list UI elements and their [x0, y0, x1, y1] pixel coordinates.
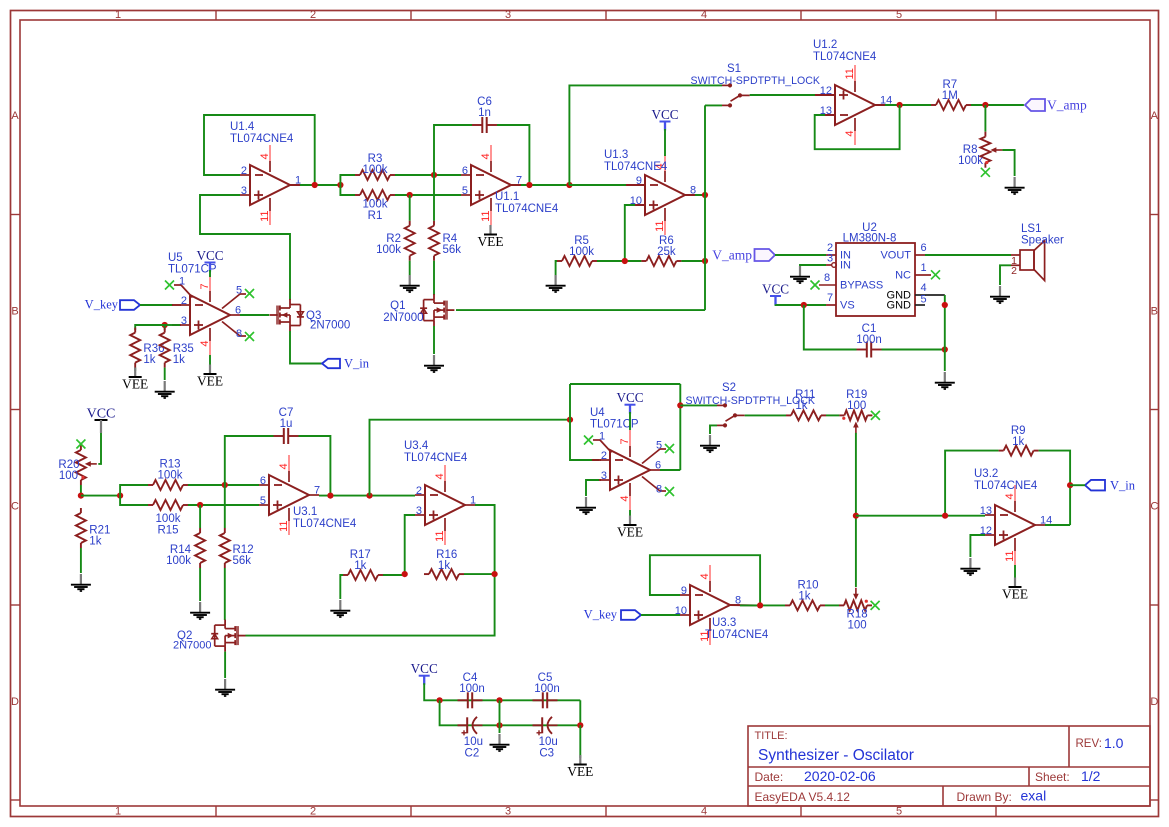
- node R20/R21 junction: [78, 493, 84, 499]
- svg-text:TL074CNE4: TL074CNE4: [974, 480, 1038, 492]
- svg-text:C2: C2: [465, 748, 480, 760]
- wire U4 pin3 to ground: [586, 480, 599, 496]
- svg-text:2: 2: [241, 165, 247, 177]
- svg-text:8: 8: [824, 272, 830, 284]
- svg-text:V_in: V_in: [1110, 478, 1136, 492]
- wire R7 to V_amp: [971, 104, 1024, 106]
- wire to R1: [340, 185, 355, 195]
- op-amp U4 TL071CP: [590, 407, 661, 510]
- svg-text:SWITCH-SPDTPTH_LOCK: SWITCH-SPDTPTH_LOCK: [691, 75, 821, 87]
- svg-text:3: 3: [416, 505, 422, 517]
- node U1.2 output junction: [897, 102, 903, 108]
- wire U1.3 pin10: [625, 205, 635, 261]
- svg-text:1n: 1n: [478, 107, 491, 119]
- svg-text:1: 1: [115, 9, 121, 21]
- svg-text:1k: 1k: [89, 536, 101, 548]
- ground at U4 pin3: [576, 497, 596, 514]
- svg-text:U3.3: U3.3: [712, 617, 736, 629]
- VEE below U1.1: [477, 225, 503, 249]
- VEE below U5: [197, 365, 223, 389]
- svg-text:4: 4: [699, 573, 711, 579]
- no-connect U2 pin1: [931, 270, 940, 279]
- net flag V_in at U3.2: [1085, 478, 1136, 492]
- capacitor C7: [274, 407, 299, 444]
- wire U3.1 output: [319, 495, 415, 497]
- net flag V_key: [85, 298, 140, 312]
- svg-text:10u: 10u: [464, 736, 483, 748]
- svg-text:1: 1: [599, 430, 605, 442]
- no-connect U4 pin8: [642, 477, 674, 497]
- capacitor C3 polarized: [533, 717, 558, 760]
- wire decoupling bottom row: [458, 724, 581, 726]
- VEE below U4: [617, 516, 643, 540]
- svg-text:4: 4: [480, 153, 492, 159]
- power VCC decoupling: [411, 661, 440, 700]
- ground at U2 pin3: [790, 266, 810, 283]
- transistor Q1 2N7000: [383, 294, 454, 326]
- resistor R17: [343, 549, 383, 580]
- wire decoupling right: [579, 700, 581, 725]
- transistor Q2 2N7000: [173, 620, 246, 652]
- node R6/U1.3-out junction: [702, 258, 708, 264]
- svg-text:1: 1: [115, 806, 121, 818]
- svg-text:TL074CNE4: TL074CNE4: [813, 51, 877, 63]
- op-amp U3.1: [259, 455, 357, 535]
- svg-text:1k: 1k: [143, 354, 155, 366]
- wire S2 throw1: [680, 404, 717, 406]
- svg-text:6: 6: [260, 475, 266, 487]
- resistor R6: [641, 235, 681, 266]
- svg-text:7: 7: [827, 292, 833, 304]
- wire split to R13: [120, 485, 148, 496]
- svg-text:4: 4: [259, 153, 271, 159]
- wire VCC to U2 pin7: [804, 304, 826, 306]
- wire V_key to U5 pin2: [140, 304, 173, 306]
- svg-text:VCC: VCC: [196, 248, 223, 263]
- svg-text:LM380N-8: LM380N-8: [843, 233, 897, 245]
- resistor R7: [931, 79, 971, 110]
- svg-text:1.0: 1.0: [1104, 735, 1124, 751]
- potentiometer R8: [958, 132, 1002, 168]
- no-connect U4 pin1: [584, 430, 612, 452]
- svg-text:U3.2: U3.2: [974, 468, 998, 480]
- power VCC above R20: [87, 407, 116, 464]
- wire Q1 gate: [456, 309, 705, 311]
- capacitor C4: [458, 672, 485, 708]
- wire split to R15: [120, 496, 148, 505]
- svg-text:TL074CNE4: TL074CNE4: [404, 452, 468, 464]
- wire R17 left to ground: [340, 575, 343, 599]
- op-amp U3.4: [404, 440, 476, 545]
- wire GND vertical: [944, 295, 946, 371]
- svg-text:A: A: [1151, 110, 1159, 122]
- wire R10 to R18: [825, 604, 839, 606]
- svg-text:4: 4: [701, 9, 707, 21]
- wire R6 right: [681, 260, 705, 262]
- wire V_key to U3.3 pin10: [641, 614, 680, 616]
- node R4 top junction: [431, 172, 437, 178]
- wire U4 feedback top: [570, 383, 680, 385]
- ground below R21: [71, 574, 91, 591]
- wire U5 pin4 to VEE: [209, 355, 211, 368]
- ground below R17: [330, 600, 350, 617]
- svg-text:V_in: V_in: [344, 357, 370, 371]
- node U4 input junction: [567, 417, 573, 423]
- resistor R10: [785, 580, 825, 611]
- wire U4 pin4 to VEE: [629, 510, 631, 519]
- node R2 top junction: [407, 192, 413, 198]
- svg-text:EasyEDA V5.4.12: EasyEDA V5.4.12: [755, 790, 851, 804]
- wire U2 VOUT to LS1: [925, 254, 1011, 256]
- svg-text:13: 13: [980, 505, 992, 517]
- wire U1.1 out to S1 throw1: [569, 85, 722, 185]
- svg-text:Synthesizer - Oscilator: Synthesizer - Oscilator: [758, 747, 914, 764]
- ground below R8 wiper: [1005, 177, 1025, 194]
- svg-text:U1.2: U1.2: [813, 39, 837, 51]
- node R13/R15 split junction: [117, 493, 123, 499]
- svg-text:25k: 25k: [657, 246, 676, 258]
- wire U1.1 pin11 to VEE: [490, 225, 492, 229]
- wire S2 pole to R11: [745, 414, 786, 416]
- svg-text:exal: exal: [1021, 788, 1047, 804]
- power VCC above U1.3: [651, 107, 678, 156]
- ground below R35: [155, 381, 175, 398]
- net flag V_key at U3.3: [584, 608, 641, 622]
- svg-text:11: 11: [278, 521, 290, 532]
- svg-text:100n: 100n: [534, 683, 560, 695]
- wire U3.2 output: [1045, 524, 1070, 526]
- svg-text:U4: U4: [590, 407, 605, 419]
- node R9 tee junction: [942, 513, 948, 519]
- wire R4 to Q1 drain: [433, 261, 435, 295]
- svg-text:C: C: [1150, 501, 1158, 513]
- ground below R2: [400, 275, 420, 292]
- svg-text:U3.1: U3.1: [293, 506, 317, 518]
- svg-text:2020-02-06: 2020-02-06: [804, 768, 876, 784]
- svg-text:U1.3: U1.3: [604, 149, 628, 161]
- wire S1 pole to U1.2 pin12: [750, 94, 825, 96]
- node C7/U3.1-out junction: [327, 493, 333, 499]
- svg-text:1k: 1k: [798, 591, 810, 603]
- node U3.2 pin13 tee junction: [853, 513, 859, 519]
- wire pin3 to R36/R35: [135, 325, 165, 330]
- svg-text:100k: 100k: [363, 164, 388, 176]
- svg-text:R1: R1: [368, 210, 383, 222]
- svg-text:VEE: VEE: [122, 377, 148, 392]
- wire R5 left to ground: [556, 261, 557, 275]
- wire Q1 source to ground: [433, 326, 435, 354]
- resistor R35: [160, 328, 194, 368]
- svg-text:4: 4: [619, 496, 631, 502]
- wire U3.2 pin11 to VEE: [1014, 565, 1016, 581]
- svg-text:10: 10: [675, 605, 687, 617]
- svg-text:56k: 56k: [233, 555, 252, 567]
- svg-text:D: D: [1150, 696, 1158, 708]
- svg-text:2N7000: 2N7000: [310, 320, 350, 332]
- svg-text:5: 5: [896, 806, 902, 818]
- svg-text:11: 11: [1004, 551, 1016, 562]
- svg-text:1: 1: [920, 262, 926, 274]
- wire U1.2 output: [885, 104, 931, 106]
- svg-text:100k: 100k: [958, 155, 983, 167]
- wire U3.4 output down: [245, 505, 494, 636]
- svg-text:V_amp: V_amp: [712, 248, 752, 263]
- wire R4 top: [433, 175, 435, 221]
- wire R8 wiper to ground: [1002, 150, 1014, 176]
- resistor R14: [166, 528, 205, 568]
- resistor R36: [130, 328, 164, 368]
- svg-text:5: 5: [656, 439, 662, 451]
- wire U1.3 output: [695, 194, 705, 196]
- svg-text:V_key: V_key: [85, 298, 119, 312]
- wire R2 top: [409, 195, 411, 221]
- VEE below U3.2: [1002, 578, 1028, 602]
- node C4 left junction: [437, 697, 443, 703]
- wire R21 bottom: [80, 548, 82, 573]
- svg-text:2: 2: [310, 9, 316, 21]
- capacitor C5: [533, 672, 560, 708]
- svg-text:4: 4: [701, 806, 707, 818]
- svg-text:1/2: 1/2: [1081, 768, 1101, 784]
- svg-text:VEE: VEE: [617, 525, 643, 540]
- no-connect R20 top: [76, 440, 85, 449]
- resistor R4: [429, 221, 461, 261]
- capacitor C2 polarized: [458, 717, 483, 760]
- node R3/R1 split junction: [337, 182, 343, 188]
- svg-text:U1.4: U1.4: [230, 121, 255, 133]
- svg-text:TITLE:: TITLE:: [755, 730, 788, 742]
- svg-text:D: D: [11, 696, 19, 708]
- wire R14 bottom: [199, 568, 201, 601]
- svg-text:100n: 100n: [459, 683, 485, 695]
- svg-text:2: 2: [310, 806, 316, 818]
- svg-text:1u: 1u: [280, 418, 293, 430]
- svg-text:NC: NC: [895, 270, 911, 282]
- net flag V_amp input: [712, 248, 775, 263]
- svg-text:11: 11: [259, 211, 271, 222]
- switch S1 SWITCH-SPDTPTH_LOCK: [691, 63, 821, 108]
- svg-text:TL071CP: TL071CP: [590, 419, 639, 431]
- wire wiper to U3.2 pin13: [856, 515, 985, 517]
- svg-text:8: 8: [656, 484, 662, 496]
- svg-text:VCC: VCC: [762, 282, 789, 297]
- svg-text:IN: IN: [840, 260, 851, 272]
- node V_in tee junction: [1067, 482, 1073, 488]
- node C1/GND junction: [942, 346, 948, 352]
- svg-text:56k: 56k: [443, 244, 462, 256]
- resistor R5: [557, 235, 597, 266]
- ground below R5: [546, 275, 566, 292]
- svg-text:3: 3: [601, 470, 607, 482]
- svg-text:V_key: V_key: [584, 608, 618, 622]
- node S1 branch junction: [566, 182, 572, 188]
- svg-text:VOUT: VOUT: [880, 250, 911, 262]
- svg-text:4: 4: [920, 282, 926, 294]
- wire U1.4 feedback: [204, 115, 315, 185]
- potentiometer R18: [839, 588, 872, 632]
- no-connect R18 right: [871, 601, 880, 610]
- power VCC at U2 pin7: [762, 282, 804, 306]
- wire U1.1 output: [521, 184, 569, 186]
- node U4-branch junction: [366, 493, 372, 499]
- svg-text:BYPASS: BYPASS: [840, 280, 883, 292]
- svg-text:100n: 100n: [856, 334, 882, 346]
- svg-text:TL074CNE4: TL074CNE4: [705, 629, 769, 641]
- wire U2 pin3 to ground: [800, 265, 826, 266]
- node R5/R6 junction: [622, 258, 628, 264]
- svg-text:6: 6: [655, 460, 661, 472]
- wire U5 pin3: [165, 324, 180, 326]
- svg-text:8: 8: [236, 328, 242, 340]
- svg-text:Sheet:: Sheet:: [1035, 770, 1070, 784]
- VEE below C3: [567, 755, 593, 779]
- svg-text:1k: 1k: [173, 354, 185, 366]
- net flag V_amp output: [1025, 98, 1087, 113]
- wire U1.4 output: [300, 184, 340, 186]
- svg-text:3: 3: [241, 185, 247, 197]
- node C4/C5 mid junction: [496, 697, 502, 703]
- op-amp U1.2: [813, 39, 900, 145]
- svg-text:3: 3: [181, 315, 187, 327]
- wire U5 out to Q3 gate: [240, 314, 269, 316]
- wire R16 right: [464, 573, 495, 575]
- wire R36 bottom: [134, 368, 136, 371]
- wire Q2 source to ground: [224, 652, 226, 678]
- svg-text:4: 4: [199, 341, 211, 347]
- wire U1.3 out vertical to S1 and Q1 gate: [704, 105, 706, 310]
- svg-text:10u: 10u: [539, 736, 558, 748]
- node R16/U3.4 junction: [492, 571, 498, 577]
- ground below Q2: [215, 679, 235, 696]
- svg-text:TL074CNE4: TL074CNE4: [293, 518, 357, 530]
- svg-text:3: 3: [505, 9, 511, 21]
- op-amp U3.3: [675, 565, 769, 645]
- svg-text:11: 11: [844, 68, 856, 79]
- wire U1.4 pin3 to Q3 drain: [200, 195, 290, 300]
- wire U3.1 out up to U4: [370, 420, 571, 496]
- svg-text:1M: 1M: [942, 90, 958, 102]
- svg-text:4: 4: [278, 463, 290, 469]
- no-connect U2 pin8: [811, 281, 837, 290]
- svg-text:1: 1: [179, 275, 185, 287]
- svg-text:100: 100: [848, 620, 867, 632]
- net flag V_in near Q3: [322, 357, 370, 371]
- title block: [748, 726, 1150, 806]
- svg-text:U1.1: U1.1: [495, 191, 519, 203]
- svg-text:TL074CNE4: TL074CNE4: [495, 203, 559, 215]
- node R7/R8 junction: [982, 102, 988, 108]
- wire R19 wiper down: [855, 433, 857, 587]
- wire R12 to Q2 drain: [224, 568, 226, 620]
- wire C7 left: [225, 436, 274, 485]
- no-connect U4 pin5: [642, 439, 674, 463]
- svg-text:4: 4: [1004, 493, 1016, 499]
- wire R9 feedback left: [945, 451, 999, 516]
- svg-text:2: 2: [181, 295, 187, 307]
- node R17/R16 junction: [402, 571, 408, 577]
- power VCC above U4: [616, 390, 643, 430]
- svg-text:2: 2: [416, 485, 422, 497]
- svg-text:VEE: VEE: [567, 764, 593, 779]
- wire R11 to R19: [826, 414, 839, 416]
- wire U2 pin4 jog: [925, 294, 945, 296]
- potentiometer R19: [839, 389, 872, 434]
- svg-text:GND: GND: [887, 300, 912, 312]
- transistor Q3 2N7000: [270, 299, 351, 332]
- svg-text:VS: VS: [840, 300, 855, 312]
- svg-text:1k: 1k: [795, 400, 807, 412]
- svg-text:100k: 100k: [158, 470, 183, 482]
- svg-text:5: 5: [236, 284, 242, 296]
- svg-text:Drawn By:: Drawn By:: [957, 790, 1012, 804]
- wire to R3: [340, 175, 355, 185]
- resistor R16: [424, 549, 464, 579]
- ground below Q1: [424, 355, 444, 372]
- svg-text:2N7000: 2N7000: [173, 640, 212, 652]
- wire C6 right: [497, 125, 529, 185]
- wire V_in tap: [1070, 484, 1085, 486]
- no-connect U5 pin1: [165, 275, 193, 297]
- op-amp U1.4: [230, 121, 312, 225]
- resistor R3: [355, 153, 395, 180]
- svg-text:VCC: VCC: [651, 107, 678, 122]
- svg-text:REV:: REV:: [1076, 738, 1102, 750]
- svg-text:4: 4: [434, 473, 446, 479]
- svg-text:C: C: [11, 501, 19, 513]
- wire C7 right: [299, 436, 331, 496]
- wire R1 to U1.1 pin5: [395, 194, 461, 196]
- wire R9 right: [1039, 451, 1071, 525]
- svg-text:5: 5: [260, 495, 266, 507]
- svg-text:4: 4: [844, 131, 856, 137]
- svg-text:6: 6: [462, 165, 468, 177]
- svg-text:VEE: VEE: [197, 374, 223, 389]
- svg-text:VEE: VEE: [1002, 587, 1028, 602]
- svg-text:2: 2: [1011, 265, 1017, 277]
- wire U3.3 output: [740, 604, 785, 606]
- resistor R13: [148, 459, 188, 491]
- no-connect R8 bottom: [981, 168, 990, 177]
- svg-text:100: 100: [59, 470, 78, 482]
- resistor R21: [76, 508, 111, 548]
- svg-text:VCC: VCC: [616, 390, 643, 405]
- svg-text:VEE: VEE: [477, 234, 503, 249]
- wire decoupling left branch: [440, 700, 458, 725]
- wire R13 right: [188, 484, 259, 486]
- no-connect U5 pin5: [222, 284, 254, 308]
- svg-text:100k: 100k: [569, 246, 594, 258]
- wire R2 bottom: [409, 261, 411, 275]
- wire R5 right: [597, 260, 641, 262]
- svg-text:A: A: [11, 110, 19, 122]
- wire LS1 pin2 to ground: [1000, 265, 1011, 285]
- IC U2 LM380N-8: [824, 222, 931, 316]
- wire R14 top: [199, 505, 201, 528]
- wire R20 to R13/R15 split: [81, 495, 120, 497]
- ground below S2: [700, 435, 720, 452]
- svg-text:100k: 100k: [376, 244, 401, 256]
- svg-text:100k: 100k: [166, 555, 191, 567]
- wire R17 right: [383, 574, 405, 576]
- svg-text:TL074CNE4: TL074CNE4: [230, 133, 294, 145]
- op-amp U1.1: [461, 145, 559, 225]
- svg-text:3: 3: [827, 253, 833, 265]
- wire U3.3 feedback: [650, 555, 760, 605]
- capacitor C1: [856, 323, 882, 358]
- op-amp U1.3: [604, 149, 705, 235]
- svg-text:7: 7: [619, 438, 631, 444]
- node S2 branch junction: [677, 402, 683, 408]
